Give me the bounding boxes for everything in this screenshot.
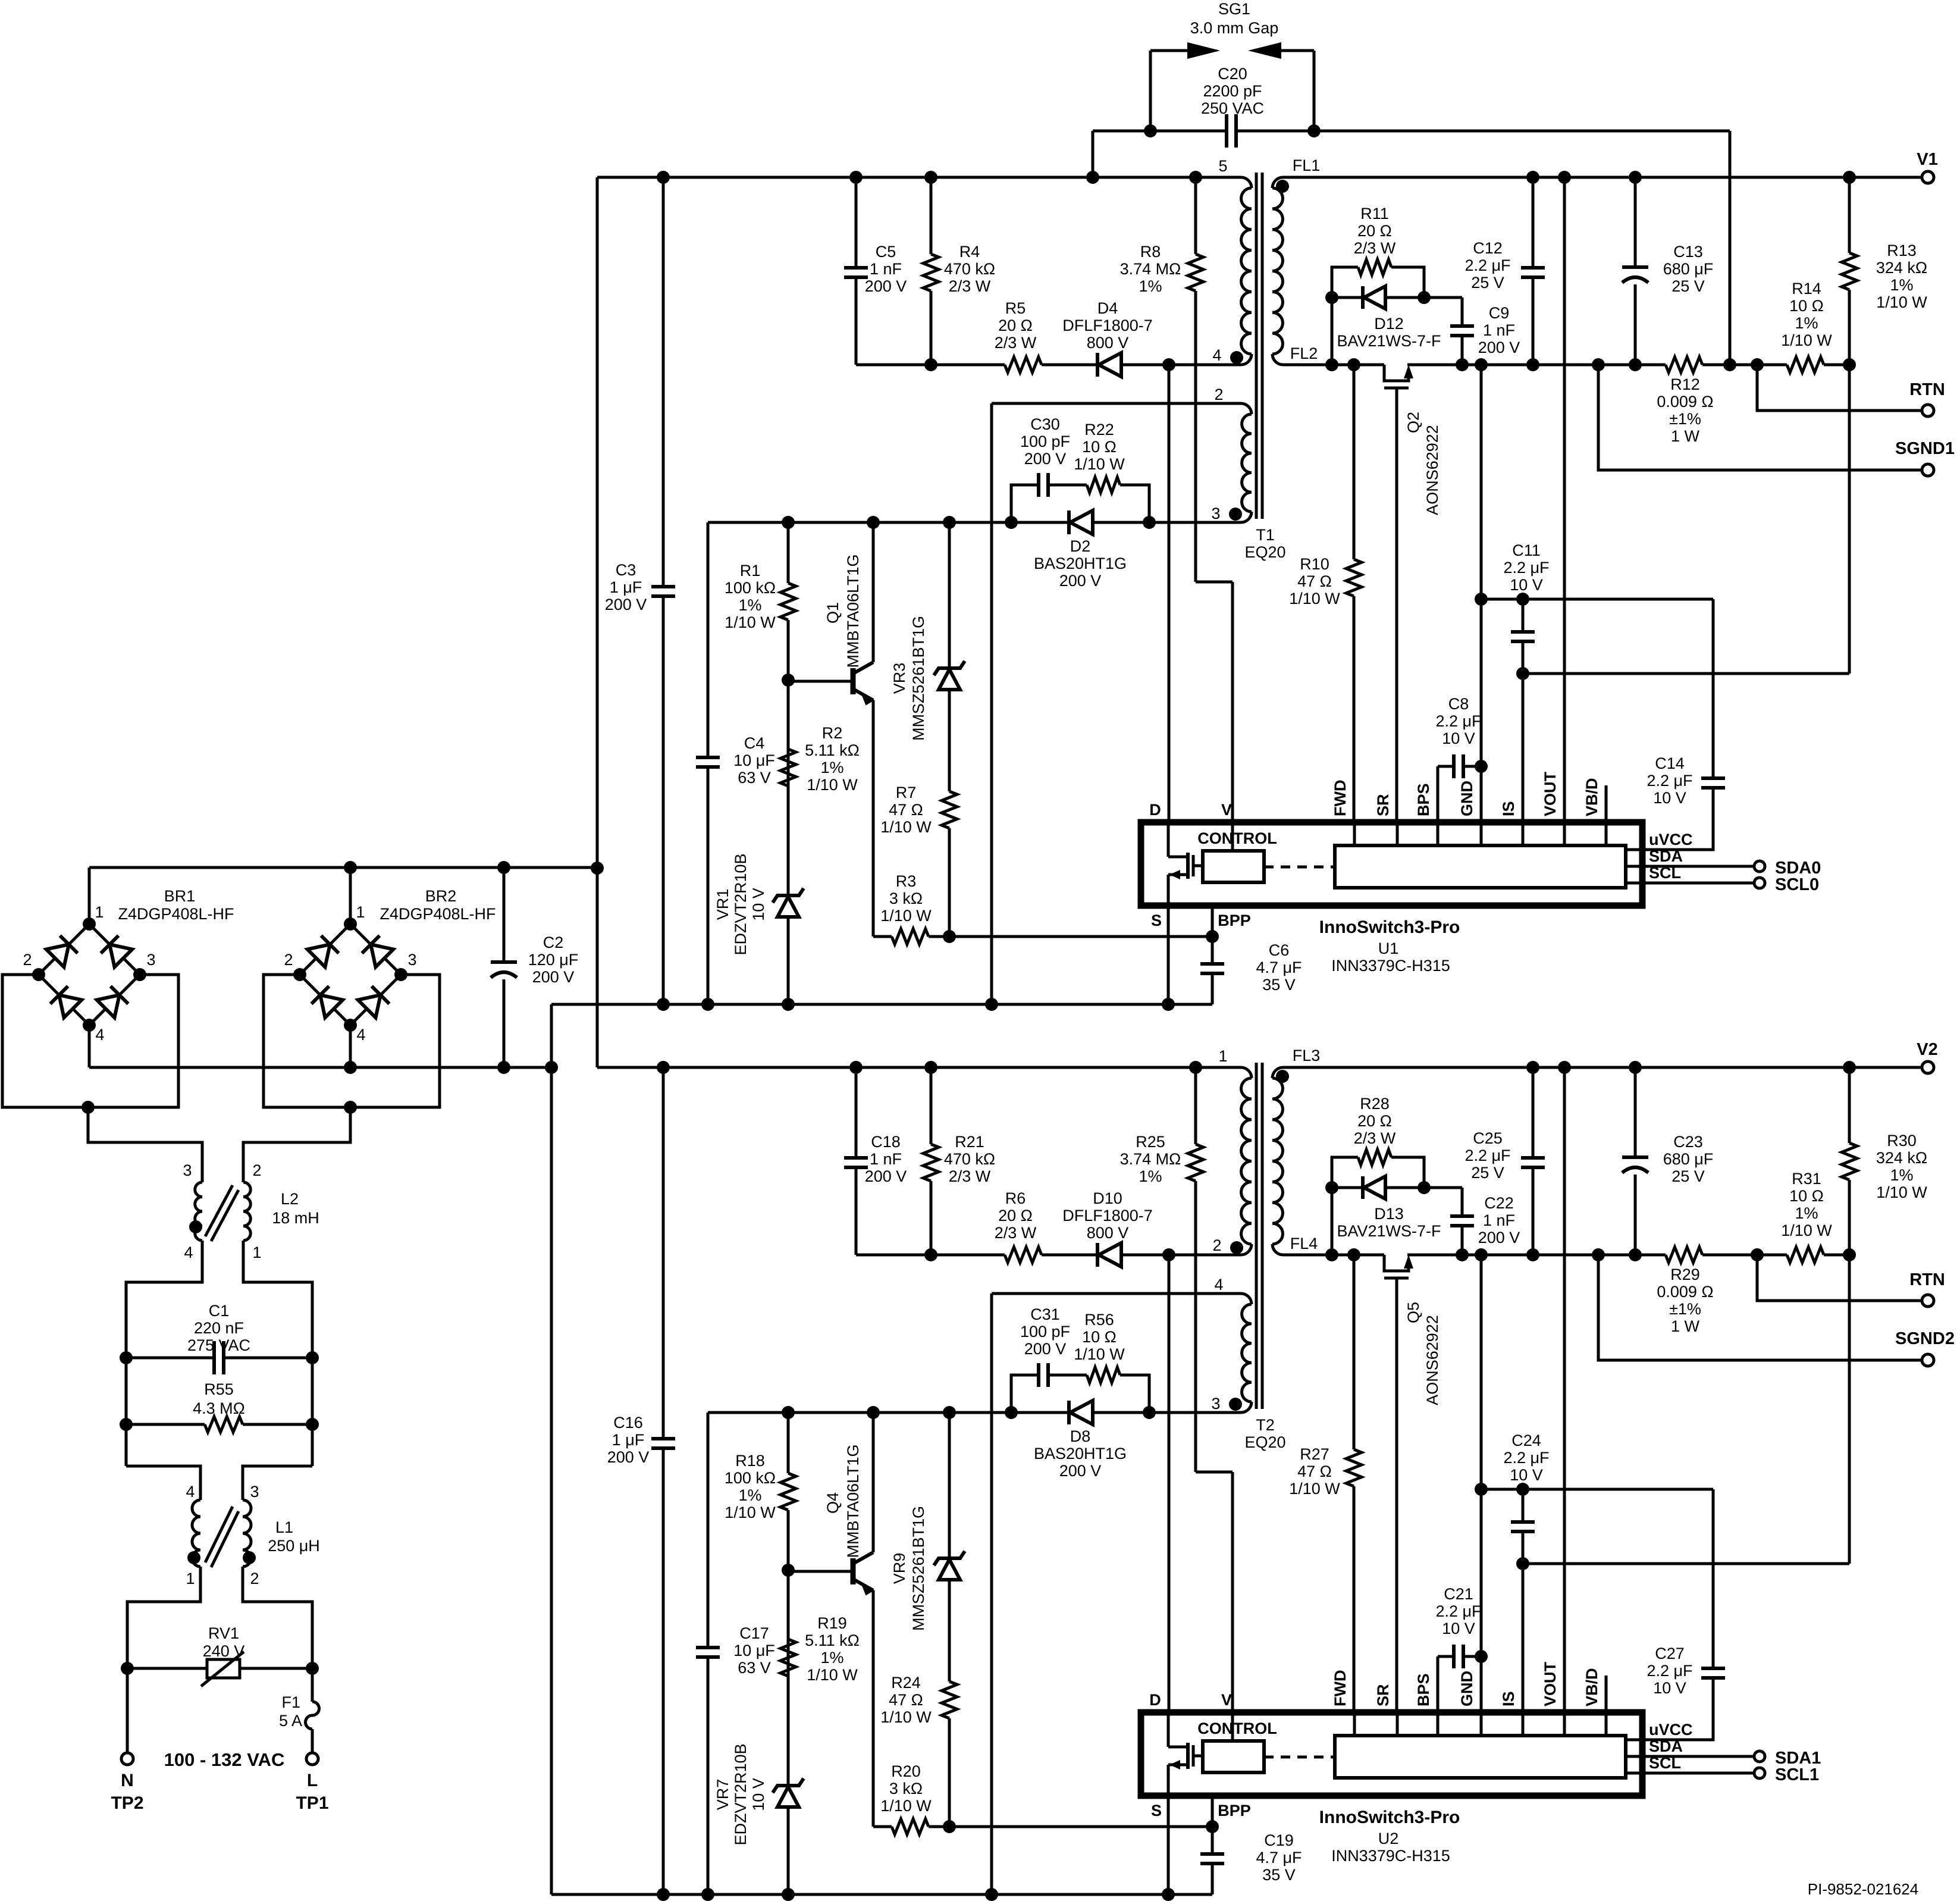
- svg-text:470 kΩ: 470 kΩ: [944, 1150, 995, 1168]
- svg-text:680 μF: 680 μF: [1663, 1150, 1714, 1168]
- transformer T2 core: [1255, 1063, 1258, 1409]
- ic internal mosfet: [1167, 1712, 1170, 1747]
- svg-text:0.009 Ω: 0.009 Ω: [1657, 393, 1713, 411]
- wire gnd to C14 link: [1481, 1488, 1713, 1491]
- terminal SDA1: [1754, 1751, 1765, 1762]
- svg-text:±1%: ±1%: [1669, 410, 1701, 428]
- wire DC+ bus riser: [596, 177, 599, 1067]
- wire FL2 rail: [1283, 364, 1384, 367]
- wire output rail V1: [1283, 176, 1923, 179]
- wire pin-4 node: [856, 364, 1241, 367]
- terminal L TP1: [306, 1753, 318, 1765]
- svg-text:D4: D4: [1097, 299, 1118, 317]
- svg-text:1 nF: 1 nF: [1483, 1211, 1515, 1229]
- varistor RV1: [127, 1667, 312, 1670]
- svg-text:MMBTA06LT1G: MMBTA06LT1G: [844, 1444, 862, 1558]
- svg-text:Z4DGP408L-HF: Z4DGP408L-HF: [380, 905, 496, 923]
- wire VB/D stub: [1605, 785, 1608, 822]
- svg-text:RTN: RTN: [1909, 1270, 1945, 1289]
- wire V-pin jog: [1196, 1471, 1233, 1474]
- svg-text:BR1: BR1: [164, 887, 196, 905]
- svg-text:D13: D13: [1374, 1205, 1404, 1223]
- resistor R56: [1087, 1365, 1120, 1385]
- svg-text:U1: U1: [1378, 939, 1399, 957]
- svg-text:20 Ω: 20 Ω: [998, 1207, 1033, 1224]
- svg-text:VR1: VR1: [714, 889, 732, 920]
- svg-text:25 V: 25 V: [1471, 1164, 1504, 1182]
- capacitor C18: [855, 1067, 858, 1255]
- svg-text:SR: SR: [1374, 794, 1392, 816]
- svg-text:Q2: Q2: [1404, 412, 1422, 433]
- svg-text:R3: R3: [896, 872, 917, 890]
- svg-text:1%: 1%: [1890, 276, 1913, 294]
- wire primary gnd rail: [551, 1003, 1212, 1006]
- svg-text:R7: R7: [896, 784, 917, 801]
- svg-text:120 μF: 120 μF: [528, 951, 579, 969]
- svg-text:4.7 μF: 4.7 μF: [1256, 1849, 1302, 1866]
- svg-text:S: S: [1151, 1802, 1162, 1819]
- svg-text:C8: C8: [1448, 695, 1469, 713]
- svg-text:1 nF: 1 nF: [1483, 321, 1515, 339]
- svg-text:10 V: 10 V: [749, 888, 767, 921]
- svg-text:BPS: BPS: [1415, 783, 1432, 816]
- svg-text:SCL: SCL: [1649, 1754, 1681, 1772]
- wire RTN: [1757, 1255, 1923, 1301]
- svg-text:18 mH: 18 mH: [272, 1209, 319, 1227]
- svg-text:EDZVT2R10B: EDZVT2R10B: [732, 1743, 749, 1845]
- svg-text:uVCC: uVCC: [1649, 831, 1693, 848]
- svg-text:100 kΩ: 100 kΩ: [725, 1469, 776, 1487]
- svg-text:L: L: [307, 1771, 318, 1790]
- svg-text:V: V: [1221, 801, 1232, 819]
- svg-text:10 Ω: 10 Ω: [1789, 1187, 1824, 1205]
- wire S pin: [1167, 1796, 1170, 1894]
- transformer T1 core: [1255, 173, 1258, 519]
- terminal SCL0: [1754, 878, 1765, 888]
- svg-text:C16: C16: [613, 1414, 643, 1432]
- capacitor C5: [855, 177, 858, 365]
- capacitor C17: [707, 1413, 710, 1894]
- svg-text:DFLF1800-7: DFLF1800-7: [1062, 1207, 1153, 1224]
- resistor R10: [1353, 365, 1356, 822]
- svg-text:SCL: SCL: [1649, 864, 1681, 882]
- svg-text:uVCC: uVCC: [1649, 1721, 1693, 1739]
- svg-text:CONTROL: CONTROL: [1197, 829, 1277, 847]
- svg-text:10 V: 10 V: [1653, 789, 1686, 807]
- svg-text:800 V: 800 V: [1087, 334, 1129, 352]
- wire input rail (transformer T1 pin 5): [597, 176, 1241, 179]
- wire BR2 pin1: [349, 867, 352, 924]
- svg-text:3.0 mm Gap: 3.0 mm Gap: [1190, 19, 1279, 37]
- svg-text:RTN: RTN: [1909, 380, 1945, 399]
- svg-text:63 V: 63 V: [738, 769, 771, 787]
- svg-text:100 - 132 VAC: 100 - 132 VAC: [164, 1749, 285, 1770]
- svg-text:1/10 W: 1/10 W: [1876, 293, 1927, 311]
- svg-text:VB/D: VB/D: [1583, 1668, 1601, 1706]
- transformer T2 secondary winding: [1272, 1067, 1283, 1078]
- ic pin stubs: [1353, 822, 1356, 845]
- svg-text:C14: C14: [1655, 754, 1685, 772]
- svg-text:VOUT: VOUT: [1541, 1661, 1559, 1706]
- junction Q base node: [782, 1564, 795, 1577]
- resistor R2: [778, 749, 798, 786]
- ic CONTROL box: [1203, 1741, 1264, 1772]
- junction S to gnd: [1162, 1888, 1175, 1901]
- svg-text:C17: C17: [739, 1624, 769, 1642]
- wire L1 to RV1 right: [243, 1567, 312, 1668]
- svg-text:2.2 μF: 2.2 μF: [1647, 772, 1692, 790]
- resistor R4: [930, 177, 933, 365]
- svg-text:1/10 W: 1/10 W: [1781, 331, 1832, 349]
- svg-text:PI-9852-021624: PI-9852-021624: [1808, 1880, 1918, 1898]
- svg-text:FL4: FL4: [1290, 1235, 1318, 1252]
- svg-text:AONS62922: AONS62922: [1423, 425, 1441, 515]
- svg-text:250 μH: 250 μH: [268, 1537, 320, 1555]
- wire secondary gnd line: [1480, 1255, 1483, 1712]
- capacitor C27: [1626, 1489, 1713, 1740]
- svg-text:V1: V1: [1917, 150, 1937, 169]
- svg-text:SG1: SG1: [1218, 0, 1250, 18]
- svg-text:680 μF: 680 μF: [1663, 260, 1714, 278]
- capacitor C30 snubber loop: [1011, 485, 1149, 522]
- svg-text:200 V: 200 V: [1024, 1340, 1067, 1358]
- svg-text:C18: C18: [871, 1133, 901, 1151]
- svg-text:R31: R31: [1792, 1170, 1821, 1188]
- wire VB/D stub: [1605, 1675, 1608, 1712]
- svg-text:1/10 W: 1/10 W: [1289, 1480, 1340, 1498]
- svg-text:3: 3: [407, 951, 416, 969]
- transformer T1 primary winding: [1241, 177, 1252, 188]
- svg-text:1/10 W: 1/10 W: [880, 1797, 932, 1815]
- svg-text:220 nF: 220 nF: [194, 1319, 244, 1337]
- svg-text:1/10 W: 1/10 W: [1876, 1183, 1927, 1201]
- svg-text:200 V: 200 V: [865, 277, 907, 295]
- transformer T1 bias winding: [1241, 403, 1252, 414]
- terminal SCL1: [1754, 1768, 1765, 1778]
- svg-text:275 VAC: 275 VAC: [187, 1336, 250, 1354]
- svg-text:1/10 W: 1/10 W: [725, 613, 776, 631]
- svg-text:1%: 1%: [1795, 314, 1818, 332]
- svg-text:VR9: VR9: [890, 1553, 908, 1584]
- svg-text:C13: C13: [1673, 243, 1703, 261]
- svg-text:R29: R29: [1670, 1266, 1700, 1283]
- terminal RTN: [1922, 1295, 1934, 1307]
- transformer T2 bias winding: [1241, 1294, 1252, 1304]
- svg-text:10 Ω: 10 Ω: [1789, 297, 1824, 315]
- svg-text:4: 4: [356, 1026, 365, 1044]
- resistor R29 current sense: [1666, 1245, 1702, 1265]
- svg-text:BAS20HT1G: BAS20HT1G: [1034, 555, 1127, 572]
- svg-text:U2: U2: [1378, 1830, 1399, 1847]
- wire L1 to RV1 left: [127, 1567, 200, 1668]
- svg-text:EQ20: EQ20: [1244, 543, 1285, 561]
- svg-text:4: 4: [95, 1026, 104, 1044]
- svg-text:R13: R13: [1887, 242, 1917, 259]
- svg-text:0.009 Ω: 0.009 Ω: [1657, 1283, 1713, 1301]
- wire VOUT sense: [1563, 177, 1566, 822]
- svg-text:5: 5: [1218, 157, 1227, 175]
- svg-text:100 kΩ: 100 kΩ: [725, 579, 776, 597]
- svg-text:2: 2: [284, 951, 293, 969]
- capacitor C8: [1437, 766, 1440, 822]
- svg-text:SCL0: SCL0: [1775, 875, 1819, 894]
- svg-text:2: 2: [252, 1161, 261, 1179]
- svg-text:1: 1: [1218, 1047, 1227, 1065]
- svg-text:250 VAC: 250 VAC: [1201, 99, 1264, 117]
- zener VR9: [948, 1413, 951, 1827]
- capacitor C3: [662, 177, 665, 1004]
- svg-text:FWD: FWD: [1331, 1670, 1349, 1706]
- resistor R19: [778, 1639, 798, 1676]
- svg-text:4: 4: [184, 1244, 193, 1261]
- svg-text:SDA: SDA: [1649, 1737, 1683, 1755]
- wire C20 to RTN rail drop: [1729, 131, 1732, 365]
- ic CONTROL box: [1203, 851, 1264, 882]
- svg-text:2/3 W: 2/3 W: [995, 1224, 1037, 1242]
- ic U2 InnoSwitch3-Pro outline: [1141, 1712, 1642, 1796]
- svg-text:1: 1: [356, 903, 365, 921]
- wire SCL to SCL1: [1626, 1772, 1754, 1775]
- capacitor C9: [1461, 297, 1464, 365]
- svg-text:InnoSwitch3-Pro: InnoSwitch3-Pro: [1319, 1808, 1460, 1827]
- capacitor C24: [1522, 1489, 1525, 1712]
- phase dot pin3: [1229, 508, 1242, 521]
- svg-text:SR: SR: [1374, 1684, 1392, 1706]
- svg-text:MMSZ5261BT1G: MMSZ5261BT1G: [910, 1506, 927, 1631]
- svg-text:Z4DGP408L-HF: Z4DGP408L-HF: [118, 905, 234, 923]
- svg-text:CONTROL: CONTROL: [1197, 1720, 1277, 1737]
- svg-text:1%: 1%: [1795, 1204, 1818, 1222]
- svg-text:1 nF: 1 nF: [870, 260, 902, 278]
- svg-text:2/3 W: 2/3 W: [1354, 1129, 1396, 1147]
- svg-text:BPS: BPS: [1415, 1673, 1432, 1706]
- svg-text:10 V: 10 V: [1442, 729, 1475, 747]
- svg-text:2.2 μF: 2.2 μF: [1503, 559, 1549, 577]
- wire BR1 AC loop: [2, 975, 178, 1107]
- wire L2 to C1 right: [243, 1241, 312, 1358]
- svg-text:AONS62922: AONS62922: [1423, 1315, 1441, 1405]
- svg-text:25 V: 25 V: [1672, 1167, 1705, 1185]
- wire VOUT sense: [1563, 1067, 1566, 1712]
- svg-text:INN3379C-H315: INN3379C-H315: [1331, 957, 1450, 975]
- svg-text:R4: R4: [959, 243, 980, 261]
- diode D8: [1067, 1401, 1071, 1424]
- svg-text:200 V: 200 V: [1059, 1462, 1102, 1480]
- capacitor C16: [662, 1067, 665, 1894]
- svg-text:C4: C4: [744, 734, 765, 752]
- diode D13: [1332, 1186, 1462, 1189]
- resistor R8 (line sense to V pin): [1194, 177, 1197, 582]
- svg-text:5.11 kΩ: 5.11 kΩ: [805, 741, 860, 759]
- svg-text:4.7 μF: 4.7 μF: [1256, 959, 1302, 976]
- resistor R14: [1787, 355, 1824, 375]
- resistor R22: [1087, 475, 1120, 495]
- svg-text:25 V: 25 V: [1471, 274, 1504, 292]
- svg-text:SGND2: SGND2: [1895, 1329, 1955, 1348]
- resistor R12 current sense: [1666, 355, 1702, 375]
- svg-text:47 Ω: 47 Ω: [1297, 572, 1332, 590]
- junction pin-4 / D: [1162, 1248, 1175, 1261]
- svg-text:R8: R8: [1140, 243, 1161, 261]
- svg-text:T1: T1: [1256, 526, 1275, 544]
- svg-text:R25: R25: [1136, 1133, 1165, 1151]
- wire V-pin jog: [1196, 581, 1233, 584]
- wire L2 to C1 left: [126, 1241, 202, 1358]
- wire RTN: [1757, 365, 1923, 411]
- svg-text:200 V: 200 V: [605, 596, 647, 613]
- svg-text:240 V: 240 V: [203, 1642, 245, 1660]
- svg-text:20 Ω: 20 Ω: [998, 317, 1033, 334]
- ic U2 secondary block: [1335, 1736, 1626, 1778]
- svg-text:R12: R12: [1670, 375, 1700, 393]
- terminal SDA0: [1754, 861, 1765, 872]
- resistor R3: [873, 935, 1212, 938]
- svg-text:MMSZ5261BT1G: MMSZ5261BT1G: [910, 616, 927, 741]
- zener VR7: [787, 1570, 790, 1894]
- wire to L terminal: [311, 1729, 314, 1753]
- fuse F1: [311, 1668, 314, 1702]
- svg-text:1 W: 1 W: [1671, 427, 1700, 445]
- capacitor C1: [126, 1357, 312, 1360]
- bridge BR2: [300, 924, 350, 975]
- svg-text:100 pF: 100 pF: [1020, 433, 1070, 450]
- svg-text:2: 2: [1212, 1236, 1221, 1254]
- diode D12: [1332, 296, 1462, 299]
- wire bias rail (pin 3): [708, 521, 1241, 524]
- svg-text:10 Ω: 10 Ω: [1082, 1328, 1117, 1346]
- capacitor C4: [707, 522, 710, 1004]
- svg-text:FL2: FL2: [1290, 345, 1318, 362]
- svg-text:3: 3: [146, 951, 155, 969]
- wire pin-4 node: [856, 1254, 1241, 1257]
- svg-text:1/10 W: 1/10 W: [880, 1708, 932, 1726]
- svg-text:R28: R28: [1360, 1095, 1390, 1113]
- svg-text:±1%: ±1%: [1669, 1300, 1701, 1318]
- svg-text:1 nF: 1 nF: [870, 1150, 902, 1168]
- svg-text:4: 4: [1214, 1276, 1223, 1294]
- capacitor C11: [1522, 599, 1525, 822]
- svg-text:N: N: [121, 1771, 134, 1790]
- resistor R30: [1848, 1067, 1851, 1564]
- ic dashed link: [1264, 866, 1335, 869]
- svg-text:IS: IS: [1500, 1691, 1517, 1706]
- resistor R25 (line sense to V pin): [1194, 1067, 1197, 1472]
- snubber R28 loop: [1332, 1157, 1424, 1255]
- svg-text:R19: R19: [817, 1614, 847, 1632]
- svg-text:C23: C23: [1673, 1133, 1703, 1151]
- svg-text:3 kΩ: 3 kΩ: [889, 890, 923, 907]
- diode D4: [1096, 353, 1099, 377]
- svg-text:BPP: BPP: [1218, 1802, 1251, 1819]
- svg-text:5 A: 5 A: [279, 1712, 302, 1730]
- svg-text:FL3: FL3: [1293, 1047, 1321, 1064]
- wire DC- bus: [89, 1066, 551, 1069]
- resistor R18: [787, 1413, 790, 1570]
- svg-text:35 V: 35 V: [1262, 976, 1296, 994]
- wire to N terminal: [126, 1668, 129, 1753]
- resistor R24: [939, 1681, 959, 1718]
- wire SDA to SDA1: [1626, 1755, 1754, 1758]
- wire AC+ bus: [89, 866, 597, 869]
- wire uVCC: [1626, 1739, 1642, 1742]
- svg-text:R18: R18: [735, 1452, 765, 1470]
- capacitor C2 bulk: [503, 867, 506, 1067]
- wire input rail (transformer T2 pin 1): [597, 1066, 1241, 1069]
- wire D-pin: [1168, 365, 1171, 822]
- svg-text:2/3 W: 2/3 W: [949, 1167, 991, 1185]
- svg-text:R1: R1: [740, 562, 761, 580]
- svg-text:R6: R6: [1005, 1189, 1026, 1207]
- terminal RTN: [1922, 405, 1934, 416]
- svg-text:10 μF: 10 μF: [733, 751, 775, 769]
- svg-text:1%: 1%: [738, 596, 761, 614]
- snubber R11 loop: [1332, 267, 1424, 365]
- svg-text:R27: R27: [1300, 1445, 1329, 1463]
- wire BR2 pin4: [349, 1025, 352, 1067]
- svg-text:C6: C6: [1269, 941, 1290, 959]
- wire BR1 pin4: [88, 1025, 91, 1067]
- wire S pin: [1167, 906, 1170, 1004]
- svg-text:EQ20: EQ20: [1244, 1433, 1285, 1451]
- svg-text:D: D: [1149, 801, 1161, 819]
- phase dot secondary: [1276, 180, 1289, 193]
- svg-text:1 μF: 1 μF: [612, 1431, 645, 1449]
- svg-text:D2: D2: [1070, 537, 1091, 555]
- svg-text:VR7: VR7: [714, 1779, 732, 1811]
- bridge BR1: [39, 924, 89, 975]
- svg-text:100 pF: 100 pF: [1020, 1323, 1070, 1341]
- svg-text:BAV21WS-7-F: BAV21WS-7-F: [1337, 332, 1441, 350]
- svg-text:20 Ω: 20 Ω: [1357, 222, 1392, 240]
- svg-text:10 V: 10 V: [1653, 1679, 1686, 1697]
- wire C20 link: [1093, 130, 1730, 133]
- diode D10: [1096, 1243, 1099, 1267]
- svg-text:1/10 W: 1/10 W: [1074, 455, 1125, 473]
- resistor R31: [1787, 1245, 1824, 1265]
- svg-text:C27: C27: [1655, 1645, 1685, 1662]
- svg-text:1/10 W: 1/10 W: [1074, 1345, 1125, 1363]
- capacitor C22: [1461, 1188, 1464, 1255]
- svg-text:200 V: 200 V: [532, 968, 575, 986]
- wire bias rail (pin 3): [708, 1411, 1241, 1414]
- wire BR2 AC loop: [264, 975, 440, 1107]
- svg-text:GND: GND: [1458, 1671, 1476, 1706]
- transistor Q1: [788, 680, 851, 683]
- svg-text:1/10 W: 1/10 W: [1781, 1222, 1832, 1239]
- wire SGND1: [1598, 365, 1923, 470]
- svg-text:3: 3: [250, 1483, 259, 1501]
- svg-text:R20: R20: [891, 1762, 921, 1780]
- capacitor C21: [1437, 1656, 1440, 1712]
- terminal SGND1: [1922, 464, 1934, 476]
- svg-text:F1: F1: [281, 1693, 300, 1711]
- resistor R27: [1353, 1255, 1356, 1712]
- svg-text:470 kΩ: 470 kΩ: [944, 260, 995, 278]
- wire uVCC: [1626, 848, 1642, 851]
- svg-text:10 μF: 10 μF: [733, 1642, 775, 1659]
- capacitor C12: [1532, 177, 1535, 365]
- svg-text:C5: C5: [876, 243, 896, 261]
- svg-text:C1: C1: [209, 1302, 230, 1320]
- svg-text:SCL1: SCL1: [1775, 1765, 1819, 1784]
- phase dot pin4: [1230, 351, 1243, 364]
- svg-text:20 Ω: 20 Ω: [1357, 1112, 1392, 1130]
- svg-text:1/10 W: 1/10 W: [880, 818, 932, 836]
- resistor R55: [125, 1358, 128, 1466]
- resistor R6: [1005, 1245, 1042, 1265]
- svg-text:C11: C11: [1512, 541, 1541, 559]
- resistor R20: [873, 1825, 1212, 1828]
